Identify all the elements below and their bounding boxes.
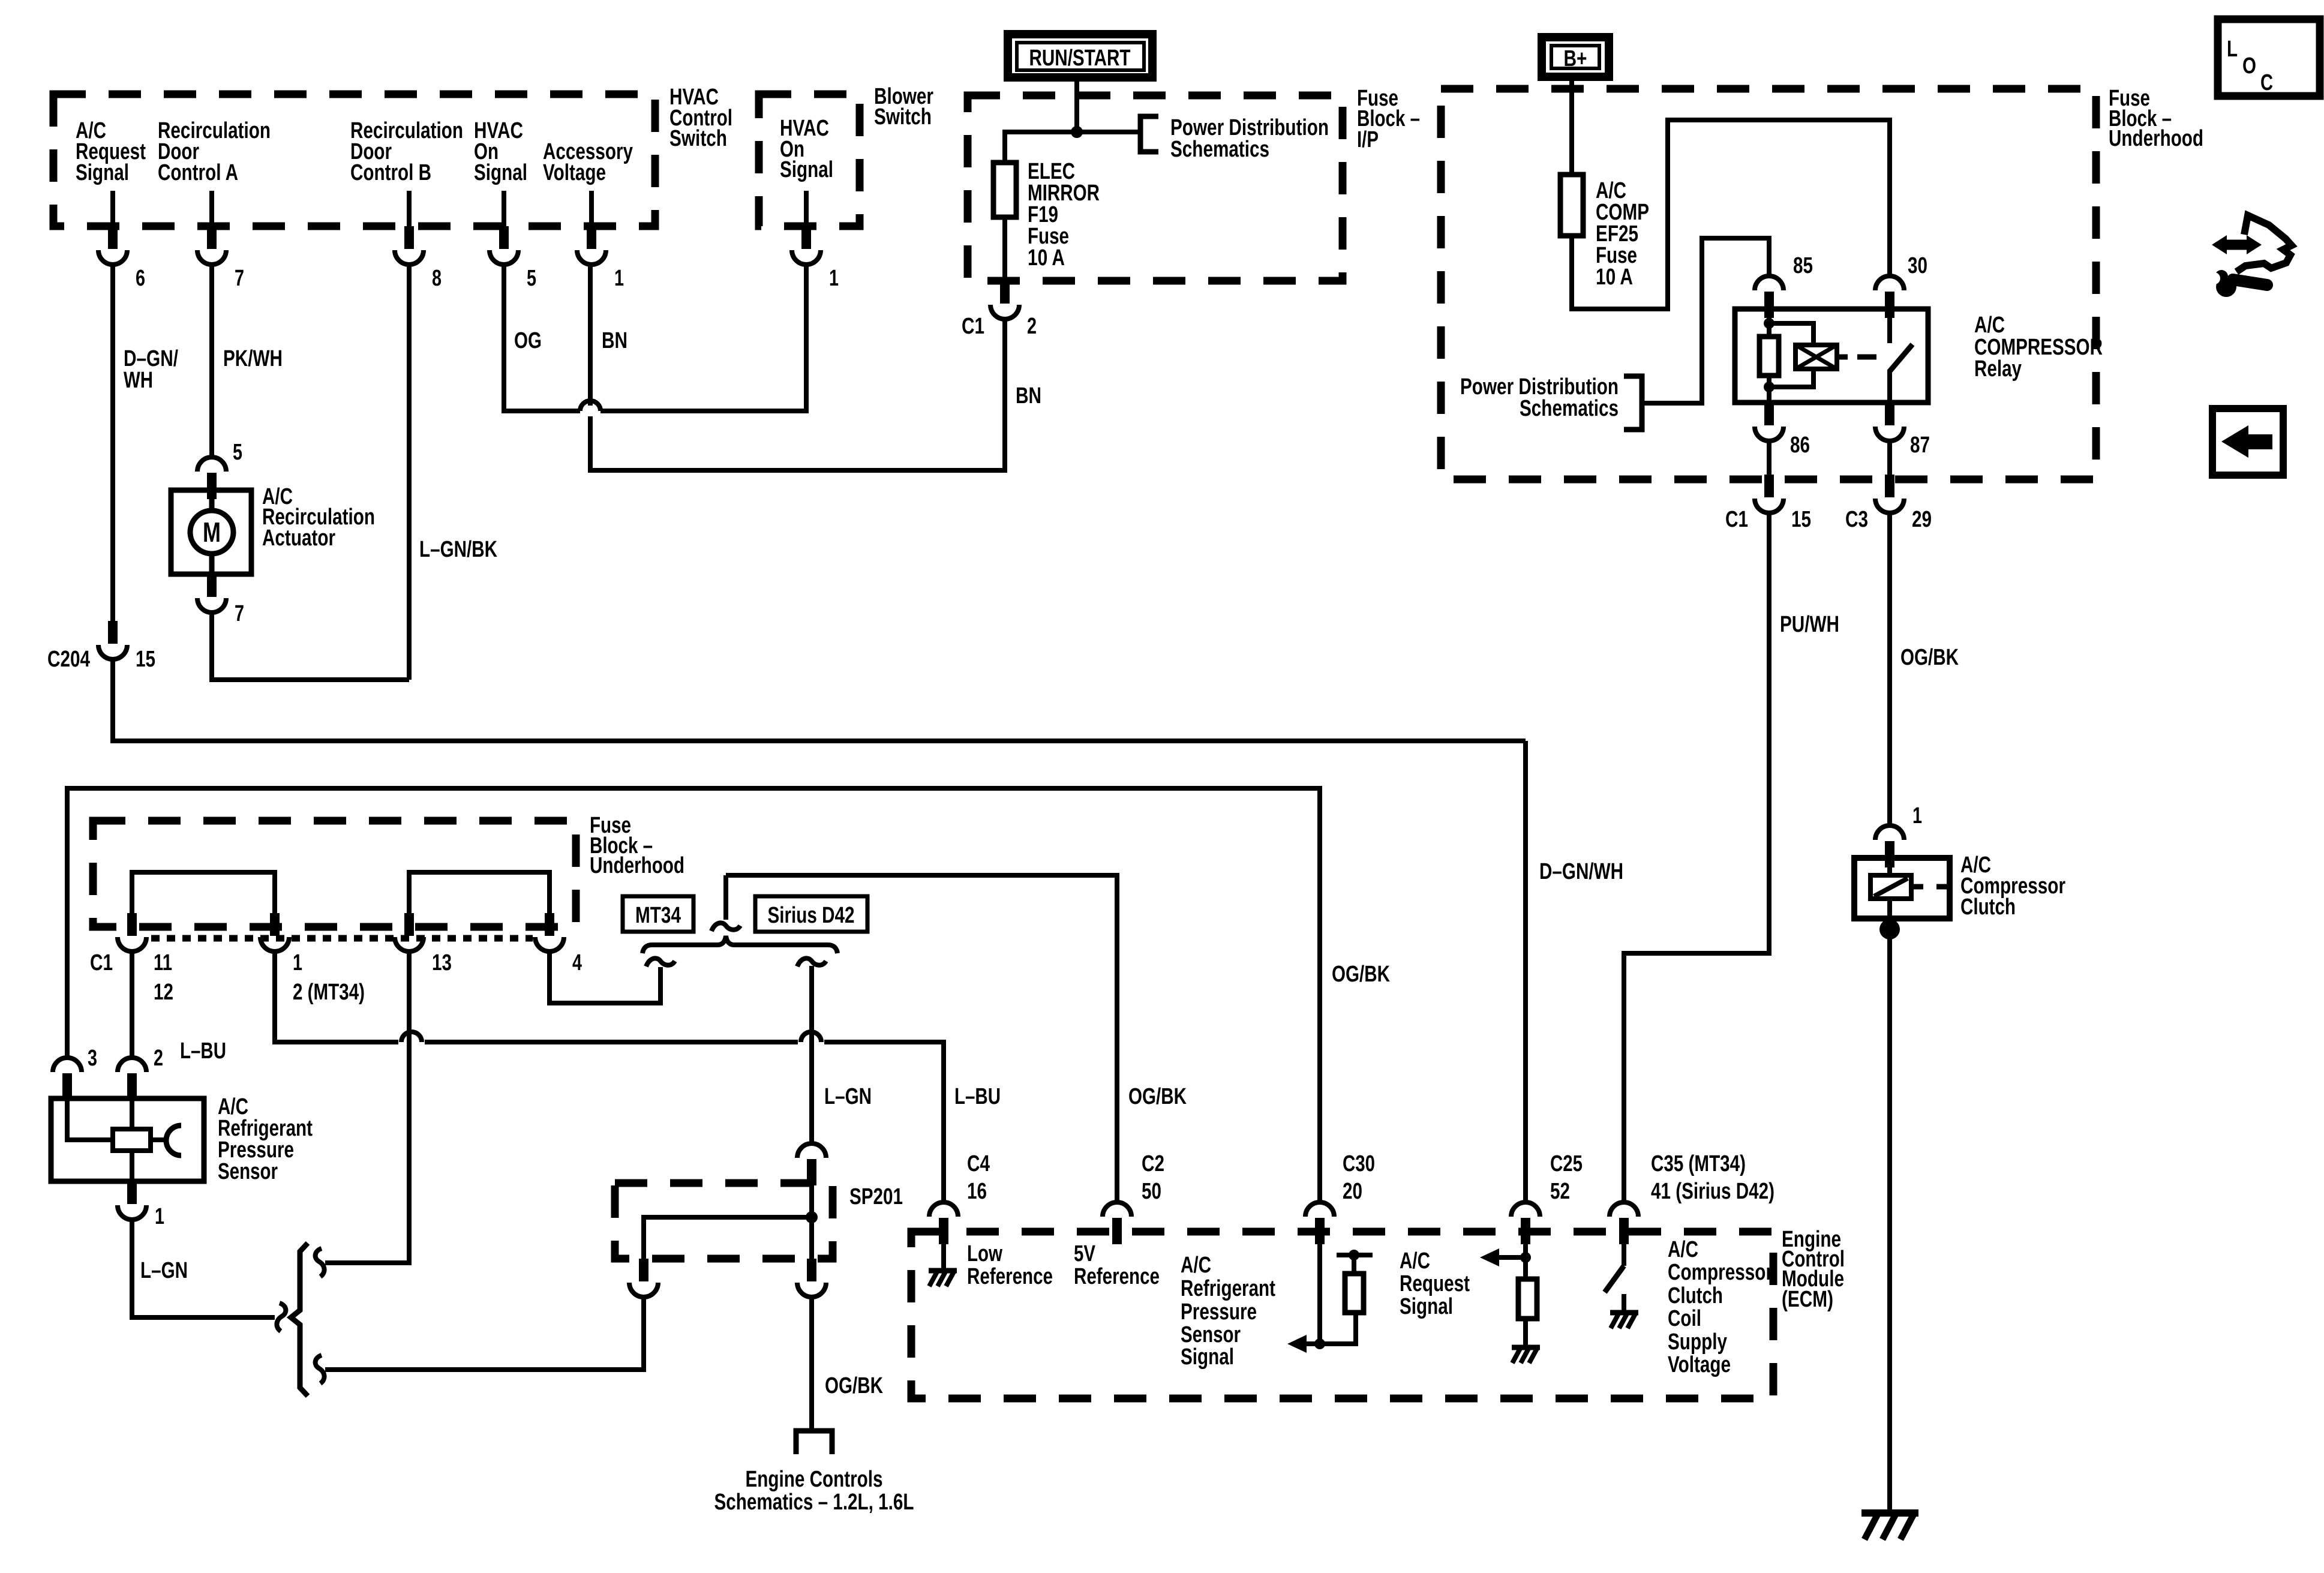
svg-text:Control B: Control B	[350, 160, 431, 185]
svg-text:SP201: SP201	[849, 1184, 903, 1209]
relay coil symbol	[1795, 345, 1837, 369]
svg-text:30: 30	[1908, 253, 1927, 278]
svg-text:C35 (MT34): C35 (MT34)	[1651, 1151, 1746, 1176]
svg-text:BN: BN	[1016, 383, 1041, 409]
B+ feed box	[1542, 37, 1609, 77]
svg-text:1: 1	[829, 266, 839, 291]
connector 5 actuator	[197, 457, 226, 499]
svg-text:(ECM): (ECM)	[1782, 1287, 1833, 1312]
splice hook bottom branch	[316, 1355, 325, 1383]
HVAC Control Switch box	[53, 85, 732, 226]
svg-text:L–BU: L–BU	[180, 1038, 226, 1064]
wire D-GN/WH pin6 down	[110, 263, 115, 621]
svg-text:Refrigerant: Refrigerant	[1181, 1276, 1275, 1301]
relay resistor	[1759, 337, 1779, 376]
wire power distribution to relay pin 85	[1642, 238, 1769, 403]
svg-text:Clutch: Clutch	[1668, 1283, 1723, 1308]
wire actuator pin7 to L-GN/BK vertical	[212, 611, 409, 680]
relay switch	[1887, 309, 1892, 343]
connector C4 16	[929, 1202, 958, 1244]
SP201 bus	[644, 1217, 812, 1259]
connector SP201 right	[797, 1259, 826, 1297]
SP201 splice pack box	[615, 1183, 903, 1259]
svg-text:OG: OG	[514, 328, 542, 353]
svg-text:L–GN: L–GN	[824, 1084, 872, 1109]
svg-text:A/C: A/C	[1400, 1248, 1430, 1274]
svg-text:87: 87	[1910, 433, 1930, 458]
svg-text:Underhood: Underhood	[590, 853, 684, 878]
connector face dotted line	[151, 935, 533, 942]
wire pin6 to long horizontal	[113, 658, 1526, 741]
connector C3 29	[1875, 475, 1904, 513]
svg-text:Signal: Signal	[76, 160, 129, 185]
wire fuse to box edge	[1002, 217, 1007, 281]
splice dot under clutch	[1879, 919, 1900, 939]
wire BN accessory voltage down	[588, 263, 593, 406]
svg-text:11: 11	[154, 950, 172, 975]
power distribution schematics bracket	[1140, 116, 1158, 152]
svg-text:5: 5	[233, 440, 242, 465]
connector C1 15	[1755, 475, 1783, 513]
svg-text:29: 29	[1912, 507, 1932, 532]
wire Sirius branch down to SP201	[809, 966, 814, 1142]
svg-text:6: 6	[136, 266, 145, 291]
svg-text:Control A: Control A	[158, 160, 238, 185]
svg-text:B+: B+	[1564, 46, 1587, 71]
Fuse Block Underhood box (top right)	[1441, 86, 2203, 479]
connector relay pin 30	[1875, 276, 1904, 318]
Sirius D42 branch hook	[797, 958, 826, 966]
relay coil branch	[1769, 323, 1813, 387]
wire pin 86 to C1 15	[1767, 440, 1771, 479]
splice hook single wire	[277, 1303, 286, 1331]
svg-text:52: 52	[1550, 1179, 1570, 1204]
svg-text:4: 4	[572, 950, 582, 975]
D-GN/WH vertical to C25	[1523, 741, 1528, 1201]
wire B+ down through fuse EF25	[1569, 77, 1574, 175]
svg-text:Supply: Supply	[1668, 1329, 1727, 1355]
svg-text:L–GN/BK: L–GN/BK	[419, 537, 497, 562]
svg-text:OG/BK: OG/BK	[1900, 645, 1959, 670]
connector C35 41	[1610, 1202, 1638, 1244]
svg-text:I/P: I/P	[1357, 127, 1379, 152]
svg-text:86: 86	[1790, 433, 1810, 458]
svg-text:WH: WH	[124, 368, 153, 393]
svg-text:M: M	[203, 517, 221, 548]
svg-text:PK/WH: PK/WH	[223, 346, 283, 371]
svg-text:Schematics: Schematics	[1520, 396, 1619, 421]
connector 1 / 2 (MT34)	[260, 913, 289, 951]
wire L-GN/BK pin8 down	[407, 263, 412, 680]
svg-text:2: 2	[1027, 314, 1037, 339]
svg-text:Signal: Signal	[780, 157, 833, 182]
wire OG/BK C3-29 down to clutch	[1887, 512, 1892, 824]
connector SP201 left	[629, 1259, 658, 1297]
RUN/START feed box	[1008, 34, 1152, 77]
A/C Recirculation Actuator	[171, 484, 375, 574]
wire junction to fuse	[1005, 132, 1077, 163]
svg-text:10 A: 10 A	[1028, 245, 1065, 271]
svg-text:2: 2	[154, 1046, 163, 1071]
wire PK/WH pin7 down	[209, 263, 214, 456]
ground (chassis) bottom right	[1861, 1513, 1918, 1539]
svg-text:RUN/START: RUN/START	[1029, 46, 1131, 71]
connector C204 15	[98, 621, 127, 659]
svg-text:Sirius D42: Sirius D42	[768, 903, 855, 928]
svg-text:15: 15	[136, 647, 155, 672]
connector 8	[395, 226, 424, 265]
wire pin 5 stub inside box	[502, 191, 506, 226]
svg-text:BN: BN	[602, 328, 627, 353]
connector C30 20	[1305, 1202, 1334, 1244]
long wire OG/BK horizontal to C30	[67, 788, 1320, 1201]
svg-text:A/C: A/C	[1668, 1237, 1698, 1262]
svg-text:OG/BK: OG/BK	[825, 1373, 883, 1398]
svg-text:Switch: Switch	[669, 126, 727, 151]
svg-text:L–BU: L–BU	[954, 1084, 1001, 1109]
fuse ELEC MIRROR F19	[993, 159, 1100, 271]
hop over BN wire	[580, 401, 600, 411]
svg-text:Schematics – 1.2L, 1.6L: Schematics – 1.2L, 1.6L	[714, 1490, 914, 1515]
MT34 label box	[623, 896, 693, 932]
connector 6	[98, 226, 127, 265]
svg-text:OG/BK: OG/BK	[1332, 962, 1390, 987]
wire pin 87 to C3 29	[1887, 440, 1892, 479]
A/C Compressor Clutch box	[1854, 852, 2065, 920]
connector C25 52	[1511, 1202, 1540, 1244]
Fuse Block Underhood box (lower)	[93, 813, 684, 927]
svg-text:Actuator: Actuator	[262, 526, 335, 551]
wire pin 8 stub inside box	[407, 191, 412, 226]
connector C1 2	[990, 281, 1019, 319]
power distribution schematics bracket (underhood)	[1624, 376, 1642, 430]
svg-text:L–GN: L–GN	[140, 1258, 188, 1283]
svg-text:Reference: Reference	[1074, 1264, 1160, 1289]
svg-text:12: 12	[154, 980, 173, 1005]
LOC box icon	[2218, 19, 2320, 96]
svg-text:C1: C1	[962, 314, 984, 339]
svg-text:Switch: Switch	[874, 104, 932, 130]
svg-text:Engine Controls: Engine Controls	[746, 1467, 883, 1492]
svg-text:Voltage: Voltage	[1668, 1352, 1731, 1377]
svg-text:Request: Request	[1400, 1271, 1470, 1296]
wire pin 1/2 down and right (L-BU to ECM C4)	[275, 950, 398, 1042]
wire RUN/START down to junction	[1074, 77, 1079, 132]
wire pin 4 to MT34 option connector	[550, 950, 660, 1003]
svg-text:L: L	[2227, 37, 2238, 62]
ECM low reference ground	[941, 1244, 946, 1268]
svg-text:50: 50	[1142, 1179, 1161, 1204]
svg-text:C3: C3	[1845, 507, 1868, 532]
wire L-BU pin 11/12 down to sensor pin 2	[130, 950, 134, 1056]
connector sensor pin 1	[118, 1181, 146, 1220]
junction dot	[1071, 126, 1083, 138]
svg-text:Signal: Signal	[474, 160, 527, 185]
wire pin 7 stub inside box	[209, 191, 214, 226]
svg-text:Reference: Reference	[967, 1264, 1053, 1289]
wire clutch to ground	[1887, 918, 1892, 1513]
connector relay pin 85	[1755, 276, 1783, 318]
svg-text:O: O	[2242, 53, 2256, 79]
SP201 junction dot	[806, 1211, 818, 1223]
svg-text:A/C: A/C	[1974, 313, 2005, 338]
wire junction to power distribution reference	[1077, 130, 1139, 134]
A/C COMPRESSOR Relay box	[1735, 309, 2103, 403]
wire SP201 right branch OG/BK down	[809, 1296, 814, 1431]
svg-text:20: 20	[1343, 1179, 1362, 1204]
svg-text:C1: C1	[90, 950, 113, 975]
diagnostic icon: double arrow with connector outline and wrench	[2205, 215, 2292, 297]
svg-text:Schematics: Schematics	[1170, 137, 1269, 162]
Fuse Block I/P box	[968, 86, 1420, 281]
coil actuation dashes	[1837, 355, 1876, 360]
junction dots relay	[1764, 318, 1774, 329]
svg-text:Compressor: Compressor	[1668, 1260, 1773, 1285]
connector 7 actuator	[197, 574, 226, 613]
connector relay pin 86	[1755, 403, 1783, 441]
wire PU/WH C1-15 down to ECM C35	[1624, 512, 1769, 1201]
Blower Switch box	[759, 84, 933, 226]
svg-text:Relay: Relay	[1974, 356, 2022, 382]
svg-text:Sensor: Sensor	[218, 1159, 278, 1184]
Sirius D42 label box	[755, 896, 867, 932]
svg-text:85: 85	[1793, 253, 1813, 278]
svg-text:1: 1	[155, 1204, 164, 1229]
svg-text:15: 15	[1791, 507, 1811, 532]
svg-text:41 (Sirius D42): 41 (Sirius D42)	[1651, 1179, 1774, 1204]
connector clutch pin 1	[1875, 825, 1904, 867]
svg-text:MT34: MT34	[635, 903, 681, 928]
svg-text:C1: C1	[1725, 507, 1748, 532]
svg-text:7: 7	[235, 601, 244, 626]
svg-text:Sensor: Sensor	[1181, 1322, 1241, 1347]
wire into SP201	[809, 1177, 814, 1217]
svg-text:Underhood: Underhood	[2109, 126, 2203, 151]
inline connector above SP201	[797, 1143, 826, 1185]
fuse block internal bus loop 1	[132, 872, 275, 915]
fuse A/C COMP EF25	[1560, 175, 1649, 290]
svg-text:5V: 5V	[1074, 1241, 1096, 1266]
connector 1 blower	[792, 226, 821, 265]
MT34 branch hook	[646, 958, 675, 966]
svg-text:D–GN/WH: D–GN/WH	[1539, 859, 1623, 884]
svg-text:8: 8	[432, 266, 442, 291]
svg-text:1: 1	[1912, 803, 1922, 828]
5V reference feed wire with option squiggle	[726, 875, 1117, 1201]
ECM clutch coil driver switch	[1622, 1244, 1626, 1266]
svg-text:5: 5	[527, 266, 536, 291]
wire pin 13 down to splice brace	[325, 950, 409, 1263]
connector 1	[577, 226, 606, 265]
svg-text:Pressure: Pressure	[1181, 1299, 1257, 1325]
svg-text:10 A: 10 A	[1596, 265, 1633, 290]
svg-text:3: 3	[88, 1046, 97, 1071]
Engine Control Module (ECM) box	[911, 1227, 1845, 1398]
svg-text:C4: C4	[967, 1151, 990, 1176]
connector 13	[395, 913, 424, 951]
svg-text:PU/WH: PU/WH	[1780, 612, 1839, 637]
svg-text:7: 7	[235, 266, 244, 291]
svg-text:C2: C2	[1142, 1151, 1164, 1176]
wire pin 6 stub inside box	[110, 191, 115, 226]
wire L-GN sensor pin1 to splice brace	[132, 1218, 275, 1317]
fuse block internal bus loop 2	[409, 872, 550, 915]
wire pin 1 stub inside box	[589, 191, 594, 226]
svg-text:Coil: Coil	[1668, 1306, 1701, 1331]
svg-text:1: 1	[614, 266, 624, 291]
svg-text:16: 16	[967, 1179, 987, 1204]
svg-text:2 (MT34): 2 (MT34)	[293, 980, 365, 1005]
svg-text:Clutch: Clutch	[1960, 894, 2016, 920]
svg-text:Voltage: Voltage	[543, 160, 606, 185]
connector sensor pin 3	[53, 1058, 82, 1100]
connector 7	[197, 226, 226, 265]
svg-text:C25: C25	[1550, 1151, 1583, 1176]
connector sensor pin 2	[118, 1058, 146, 1100]
svg-text:C30: C30	[1343, 1151, 1375, 1176]
svg-text:1: 1	[293, 950, 302, 975]
svg-text:A/C: A/C	[1181, 1253, 1211, 1278]
wire EF25 to relay pin 30	[1572, 120, 1890, 309]
back arrow icon	[2212, 409, 2283, 475]
svg-text:C204: C204	[47, 647, 90, 672]
connector C2 50	[1103, 1202, 1131, 1244]
wire OG pin5 down and right to blower	[504, 263, 580, 411]
connector 5	[490, 226, 518, 265]
splice hook top branch	[316, 1248, 325, 1277]
option brace	[642, 936, 837, 953]
svg-text:Signal: Signal	[1400, 1294, 1453, 1319]
wire blower pin 1 stub	[804, 191, 809, 226]
svg-text:OG/BK: OG/BK	[1128, 1084, 1187, 1109]
relay coil circuit	[1767, 309, 1771, 403]
svg-text:Low: Low	[967, 1241, 1002, 1266]
svg-text:Signal: Signal	[1181, 1344, 1234, 1370]
connector 4	[535, 913, 564, 951]
svg-text:C: C	[2260, 70, 2273, 95]
svg-text:13: 13	[432, 950, 452, 975]
connector C1 11/12	[118, 913, 146, 951]
splice brace	[291, 1243, 308, 1396]
wire SP201 left branch to splice brace	[325, 1296, 644, 1370]
engine controls reference bracket	[796, 1431, 832, 1454]
connector relay pin 87	[1875, 403, 1904, 441]
